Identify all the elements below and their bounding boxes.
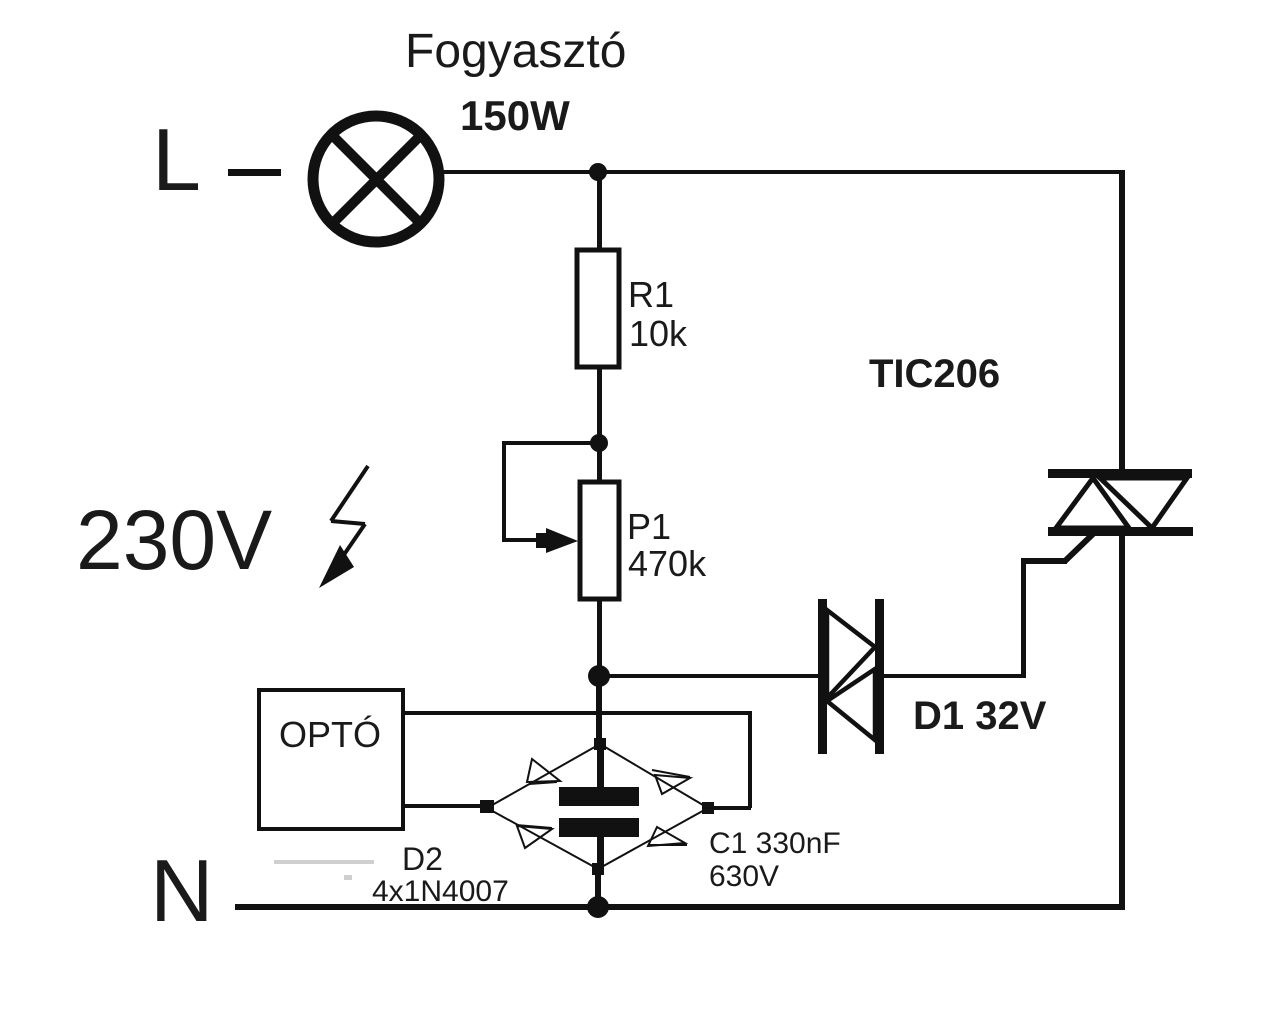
node bridge left: [480, 800, 494, 813]
wire L dash: [228, 169, 281, 176]
optocoupler OPTO box: [259, 690, 403, 829]
wire R1 to node2: [597, 367, 602, 443]
wire P1 wiper loop: [502, 441, 599, 542]
bridge diode top-right: [652, 770, 690, 794]
wire node3 to bridge top: [596, 676, 602, 744]
diac D1: [818, 599, 884, 754]
wire node2 to P1: [597, 443, 602, 482]
wire junction to R1: [597, 172, 602, 252]
potentiometer P1: [580, 482, 619, 599]
resistor R1: [577, 250, 619, 367]
node bridge right: [702, 802, 714, 814]
svg-text:TIC206: TIC206: [869, 352, 1000, 396]
ghost watermark streak: [274, 860, 374, 880]
wire node3 to diac: [599, 674, 818, 678]
wire N horizontal: [235, 904, 1124, 910]
svg-text:D1 32V: D1 32V: [913, 694, 1047, 738]
wire right vertical lower: [1119, 536, 1125, 910]
svg-text:L: L: [152, 110, 201, 209]
node bridge bottom: [592, 863, 604, 875]
wire gate riser vertical: [1021, 559, 1026, 678]
bridge diode top-left: [527, 759, 560, 784]
svg-text:4x1N4007: 4x1N4007: [372, 875, 509, 908]
bridge diode bottom-right: [648, 827, 687, 846]
svg-text:C1 330nF: C1 330nF: [709, 827, 841, 860]
node junction N: [587, 896, 609, 918]
svg-text:470k: 470k: [628, 543, 707, 584]
wire lamp to top-right corner: [443, 170, 1122, 174]
node bridge top: [594, 738, 606, 750]
wire bridge bottom to N: [595, 869, 601, 907]
svg-text:630V: 630V: [709, 860, 779, 893]
svg-text:OPTÓ: OPTÓ: [279, 714, 381, 755]
lamp E1 (load): [313, 116, 439, 242]
P1 wiper arrow: [546, 528, 578, 553]
node junction 2: [590, 434, 608, 452]
svg-text:150W: 150W: [460, 92, 570, 139]
wire right vertical upper: [1119, 170, 1125, 473]
wire P1 to node3: [597, 599, 602, 676]
wire diac to gate riser: [884, 674, 1026, 678]
triac TIC206 symbol: [1048, 469, 1193, 536]
wire opto top to bridge right: [403, 711, 752, 810]
wire gate diagonal: [1065, 534, 1093, 561]
wire gate horizontal: [1021, 558, 1067, 564]
svg-text:R1: R1: [628, 274, 674, 315]
svg-text:N: N: [150, 841, 214, 940]
bridge diode bottom-left: [516, 825, 552, 848]
capacitor C1: [559, 744, 639, 869]
svg-text:D2: D2: [402, 841, 443, 877]
svg-text:10k: 10k: [629, 313, 688, 354]
node junction L: [589, 163, 607, 181]
svg-text:Fogyasztó: Fogyasztó: [405, 25, 626, 78]
svg-text:P1: P1: [627, 506, 671, 547]
node junction 3: [588, 665, 610, 687]
wire opto bottom to bridge left: [403, 804, 488, 808]
svg-text:230V: 230V: [76, 493, 272, 587]
lightning bolt: [319, 466, 368, 588]
bridge rectifier D2: [487, 744, 708, 869]
